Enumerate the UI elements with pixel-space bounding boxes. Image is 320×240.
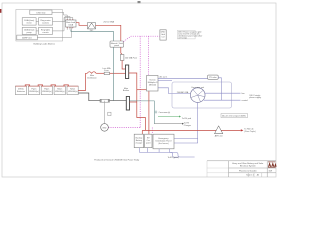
emergency panel box1 [134, 134, 143, 148]
wire blue AC out B [158, 79, 172, 81]
svg-text:AC out 1: AC out 1 [160, 76, 169, 79]
wire blue AC out A [158, 77, 208, 79]
main feed box [66, 20, 77, 27]
wire live out [205, 93, 245, 95]
busbar 2 [126, 97, 129, 111]
svg-text:US5000(x): US5000(x) [55, 91, 65, 93]
load box C [22, 27, 36, 34]
svg-text:Building Loads (Notes): Building Loads (Notes) [33, 43, 54, 46]
wire gray MID tap [104, 101, 106, 124]
wire purple AC feed to CU [158, 88, 190, 94]
arrowheads into main feed box [67, 19, 74, 28]
emergency panel box3 [153, 134, 174, 149]
svg-text:100 63A Fuse: 100 63A Fuse [125, 56, 138, 59]
left edge red registration dash [0, 9, 1, 13]
wire red busbar drop [129, 73, 146, 130]
consumer unit circle [190, 86, 205, 103]
wire red to fuse F1 [96, 72, 104, 74]
svg-text:A4: A4 [257, 174, 259, 177]
svg-text:(Poss Triple): (Poss Triple) [244, 131, 256, 133]
wire black battery negative [78, 93, 100, 101]
red branch box1 [141, 130, 143, 134]
inductor hump [87, 72, 96, 74]
wire teal main feed to changeover [71, 30, 113, 41]
note text box [177, 30, 202, 39]
red arrowhead [241, 129, 244, 131]
magenta ctrl vertical 2 [148, 36, 150, 75]
svg-text:US5000(x): US5000(x) [68, 91, 78, 93]
svg-text:To EV (poss): To EV (poss) [168, 157, 180, 159]
AC system big box [172, 82, 232, 108]
svg-text:point: point [146, 141, 151, 144]
solar breaker small box [208, 75, 219, 79]
svg-text:Scale 1:1: Scale 1:1 [246, 175, 254, 177]
svg-text:AVR unit: AVR unit [215, 134, 223, 137]
svg-text:Phoenix & Garden: Phoenix & Garden [239, 169, 258, 172]
svg-text:ASHP Unit: ASHP Unit [22, 36, 32, 39]
svg-text:48/5000: 48/5000 [149, 85, 157, 87]
load box D [39, 27, 53, 34]
magenta ctrl vertical 1 [139, 36, 141, 127]
magenta ctrl MID link [108, 127, 140, 129]
svg-text:Busbar: Busbar [123, 90, 130, 92]
load box A [22, 18, 36, 25]
wire red DC to inverter [137, 89, 147, 91]
AVR triangle [215, 126, 223, 138]
svg-text:US5000(x): US5000(x) [42, 91, 52, 93]
svg-text:at 8 amps: at 8 amps [178, 37, 187, 40]
wire black EV charger [154, 123, 191, 127]
emergency panel box2 [145, 134, 152, 148]
svg-text:Multiplus II: Multiplus II [148, 81, 158, 84]
ASHP bottom box [17, 35, 38, 40]
changeover panel [110, 41, 124, 47]
DNO grid combo CU box [160, 30, 166, 40]
svg-text:pump: pump [27, 32, 33, 34]
svg-text:panel: panel [114, 45, 119, 47]
svg-text:240VAC 63A: 240VAC 63A [177, 91, 189, 94]
svg-text:Consumer unit: Consumer unit [191, 86, 204, 89]
victron inverter box [147, 76, 159, 92]
battery modules row [15, 86, 78, 95]
title block [207, 161, 276, 177]
wire red battery riser [78, 73, 87, 90]
svg-text:Distribution: Distribution [87, 77, 96, 80]
svg-text:Consumer(s): Consumer(s) [159, 112, 171, 114]
teal earth run [112, 47, 114, 100]
fuse F1 [104, 72, 109, 74]
wire red F1 to busbar1 [110, 72, 126, 74]
svg-text:To EV pod: To EV pod [182, 118, 191, 120]
wire red mains to isolator [76, 23, 88, 26]
wire earth run to loads [130, 101, 155, 124]
DNO supply box [30, 10, 52, 15]
MID meter circle [101, 124, 109, 132]
battery red jumpers [25, 85, 68, 86]
svg-text:MID: MID [103, 127, 107, 129]
wire blue small box drop [218, 78, 221, 100]
svg-text:AC-DC 150 amps (3.6kW): AC-DC 150 amps (3.6kW) [222, 114, 246, 117]
wire red isolator to changeover [96, 25, 121, 41]
consumer earth label [155, 110, 171, 114]
svg-text:US5000(x): US5000(x) [29, 91, 39, 93]
svg-text:phase supply: phase supply [249, 97, 261, 99]
logo [268, 162, 277, 168]
wire red inverter AC down [148, 91, 150, 134]
svg-text:Batteries: Batteries [17, 90, 25, 93]
svg-text:charger: charger [136, 142, 143, 144]
wire purple CU down [174, 103, 198, 144]
svg-text:Produced at Keswick CR34068 I: Produced at Keswick CR34068 Initial Powe… [94, 159, 139, 162]
svg-text:DNO Grid: DNO Grid [37, 12, 46, 14]
svg-text:Victron: Victron [149, 78, 155, 81]
wire green EV pod [158, 116, 191, 120]
svg-text:neutral: neutral [242, 99, 249, 102]
svg-text:meter: meter [27, 21, 32, 24]
wire black shunt to busbar2 [110, 100, 127, 102]
building wiring bundle [36, 12, 73, 37]
magenta ctrl changeover to DNO CU [124, 36, 160, 41]
wire purple stub to panel [174, 138, 198, 140]
magenta ctrl stub to emergency panel [151, 128, 153, 135]
svg-text:Charger: Charger [184, 125, 192, 127]
wire red busbar2 stub [130, 101, 137, 103]
top center fold tick [138, 1, 141, 3]
svg-text:100A: 100A [68, 24, 73, 27]
fuse F2 vertical [121, 47, 122, 54]
svg-text:PV solar: PV solar [209, 77, 217, 79]
CT clamp square [108, 112, 111, 115]
svg-text:circuits: circuits [42, 31, 48, 34]
load box B [39, 18, 53, 25]
svg-text:25mm SWA: 25mm SWA [103, 20, 114, 23]
svg-text:(the house): (the house) [158, 142, 168, 145]
isolator switch X1 [88, 23, 96, 33]
svg-text:Electrical System: Electrical System [240, 164, 256, 167]
svg-text:1kW: 1kW [269, 171, 273, 173]
building group outer box [16, 10, 63, 42]
svg-text:sockets: sockets [42, 21, 49, 24]
AC-DC label box [221, 114, 248, 118]
wire red long run [142, 129, 241, 131]
svg-text:Main feed: Main feed [66, 22, 75, 24]
page border frame [2, 3, 276, 177]
busbar 1 [126, 65, 129, 79]
shunt [100, 99, 110, 102]
wire neutral out [204, 99, 248, 102]
blue bottom bus [139, 148, 194, 158]
battery top red edges [15, 85, 78, 87]
wire red F2 to bus [122, 60, 125, 69]
